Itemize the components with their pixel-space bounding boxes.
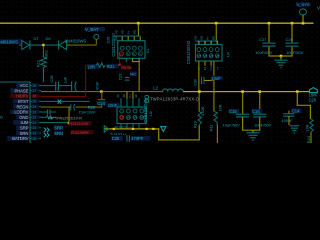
svg-text:C14: C14	[292, 109, 300, 114]
wire V_BAT stub	[96, 39, 97, 44]
svg-text:CS8123SN0: CS8123SN0	[186, 40, 191, 64]
wire PHASE row to U2	[41, 91, 140, 92]
svg-text:R19: R19	[194, 121, 198, 128]
net label red R13210O	[69, 121, 92, 125]
svg-text:ILIM: ILIM	[21, 120, 29, 125]
wire PHASE to U2 pin3	[132, 92, 133, 99]
pin BTST	[13, 99, 28, 104]
svg-text:F+: F+	[128, 94, 132, 98]
svg-text:R24: R24	[307, 136, 311, 143]
svg-text:10R: 10R	[305, 124, 309, 131]
svg-text:U4: U4	[226, 52, 230, 57]
svg-text:VCC: VCC	[20, 83, 29, 88]
resistor R24	[310, 119, 313, 132]
svg-text:NC: NC	[130, 71, 136, 76]
svg-text:PHASE: PHASE	[14, 88, 28, 93]
svg-text:R13210OK: R13210OK	[69, 121, 89, 126]
net arrows SRP	[44, 128, 49, 132]
wire bus to C29	[291, 24, 292, 42]
svg-text:GND: GND	[19, 115, 28, 120]
junction bus to U1	[137, 22, 140, 25]
wire C24 bottom	[101, 102, 102, 108]
svg-text:10nF: 10nF	[211, 76, 221, 81]
svg-text:26: 26	[32, 94, 36, 98]
label C16	[252, 109, 263, 114]
svg-text:C23: C23	[118, 74, 122, 81]
junction bus to V_SYS port	[302, 22, 305, 25]
junction diodes to R12	[42, 44, 44, 46]
wire	[41, 116, 46, 118]
resistor on GND row	[46, 116, 53, 119]
junction bus to U4	[215, 22, 218, 25]
label C25	[111, 136, 123, 141]
svg-text:C27: C27	[259, 37, 267, 42]
junction red net	[118, 63, 120, 65]
port V_BAT	[85, 27, 106, 31]
svg-text:R11: R11	[210, 125, 214, 132]
IC U4 body	[196, 44, 223, 61]
net label red R111362	[71, 130, 94, 134]
svg-text:47nF: 47nF	[95, 81, 99, 90]
pin ILIM	[13, 120, 28, 125]
pin LODRV	[10, 110, 28, 115]
junction yellow ILIM	[68, 122, 71, 125]
wire gnd stub	[280, 56, 281, 60]
label R21	[106, 64, 118, 69]
svg-text:C: C	[120, 52, 122, 56]
U4 pads row1	[197, 48, 201, 52]
port arrow down	[161, 127, 166, 132]
svg-text:L2: L2	[153, 85, 158, 90]
capacitor on LODRV row	[47, 109, 49, 114]
svg-text:20: 20	[32, 126, 36, 130]
inductor L2	[163, 89, 183, 92]
U1 pads row1	[120, 46, 124, 50]
wire bus to C16	[259, 92, 260, 114]
wire HIDRV row (red)	[41, 96, 86, 97]
pin GND	[16, 115, 28, 120]
svg-text:V_SYS: V_SYS	[297, 2, 310, 7]
capacitor C25	[126, 135, 128, 141]
svg-text:C5: C5	[120, 116, 124, 120]
svg-text:R21: R21	[107, 64, 115, 69]
svg-text:18: 18	[32, 137, 36, 141]
wire bus to C27	[268, 24, 269, 42]
pin HIDRV	[10, 94, 28, 99]
port arrow (right end of bus)	[310, 88, 318, 93]
wire REGN row	[41, 107, 71, 108]
net arrow left	[104, 126, 108, 133]
wire U1 down to PHASE row	[139, 61, 140, 92]
svg-text:19: 19	[32, 132, 36, 136]
junction gnd tie	[280, 55, 283, 58]
wire red to U1 pad	[119, 56, 120, 64]
ground symbol (top right)	[275, 60, 288, 67]
capacitor C15	[236, 113, 249, 115]
svg-text:P5 0s: P5 0s	[121, 65, 131, 70]
resistor R11	[214, 111, 217, 124]
svg-text:10uF/50V: 10uF/50V	[254, 122, 272, 127]
svg-text:C16: C16	[252, 109, 260, 114]
wire bus A down	[158, 128, 159, 140]
svg-text:C24: C24	[97, 101, 105, 106]
net label red	[121, 65, 131, 69]
pin REGN	[13, 104, 28, 109]
label C24	[97, 101, 107, 106]
svg-text:10R: 10R	[88, 64, 96, 69]
wire V_SYS/V_BAT top bus	[0, 23, 314, 24]
svg-text:BTST: BTST	[18, 99, 29, 104]
svg-text:U2: U2	[149, 111, 153, 116]
wire HIDRV vertical (red)	[85, 65, 86, 97]
wire gnd tie	[268, 55, 292, 56]
svg-text:10R: 10R	[219, 104, 223, 111]
svg-text:23: 23	[32, 110, 36, 114]
svg-text:C15: C15	[229, 109, 237, 114]
junction U4 to bus	[198, 90, 201, 93]
wire C20 branch	[297, 92, 310, 119]
svg-text:25: 25	[32, 100, 36, 104]
wires below U4	[199, 61, 214, 111]
wire between diodes	[30, 45, 58, 46]
svg-text:CS8123SN0: CS8123SN0	[111, 33, 116, 57]
wire C24 top	[101, 92, 102, 100]
svg-text:V5: V5	[210, 54, 214, 58]
wire bus B up to R19	[199, 125, 200, 140]
wire bus drop to U1	[138, 24, 139, 36]
wire PHASE to U2 pin2	[126, 92, 127, 99]
wires C15/C16 to gnd	[243, 117, 260, 130]
svg-text:BATDRV: BATDRV	[12, 136, 28, 141]
wire L2 to right bus	[183, 91, 309, 92]
label C15	[229, 109, 240, 114]
wire U1 bottom jog	[132, 61, 140, 62]
net arrows SRN	[44, 133, 49, 137]
junction bus A 4	[152, 128, 154, 130]
svg-text:C26: C26	[106, 37, 110, 44]
svg-text:D7: D7	[34, 36, 40, 41]
diode D7 value 1N4819WS	[0, 39, 22, 44]
wire C14 to gnd	[288, 116, 289, 125]
pin PHASE	[10, 88, 28, 93]
svg-text:D: D	[0, 115, 3, 120]
wire R12 to U3 top	[43, 67, 44, 82]
svg-text:100nF: 100nF	[281, 118, 293, 123]
svg-text:1N4819WS: 1N4819WS	[65, 38, 87, 43]
wire R19 top	[199, 93, 200, 111]
svg-text:D6: D6	[46, 36, 52, 41]
wire into L2	[140, 91, 163, 92]
wire yellow vertical x69	[69, 107, 70, 124]
capacitor C22 (polarized)	[71, 82, 73, 91]
wire R24 bottom	[310, 132, 311, 143]
junction bus to C27	[268, 22, 271, 25]
IC U2 body	[117, 107, 146, 124]
svg-text:F3: F3	[203, 66, 207, 70]
capacitor C28	[55, 82, 57, 91]
capacitor C24	[98, 99, 105, 101]
resistor R12	[41, 57, 47, 67]
svg-text:10uF/50V: 10uF/50V	[286, 50, 304, 55]
svg-text:4.02K: 4.02K	[201, 106, 205, 116]
svg-text:10nF: 10nF	[108, 103, 118, 108]
ground symbol (bottom mid)	[247, 133, 260, 141]
svg-text:V5: V5	[127, 116, 131, 120]
svg-text:SRP: SRP	[54, 125, 63, 130]
junction bus A 2	[132, 128, 134, 130]
wire C27 to gnd rail	[268, 47, 269, 57]
pin SRP	[16, 125, 28, 130]
capacitor C33 (polarized)	[70, 104, 72, 110]
svg-text:R12: R12	[37, 60, 41, 67]
port V_SYS	[296, 2, 311, 6]
net label NC	[130, 71, 137, 76]
wire V_SYS port stub	[302, 15, 303, 23]
pin VCC	[16, 83, 28, 88]
wire U1 pin3 down	[132, 58, 133, 61]
svg-text:24: 24	[32, 105, 36, 109]
svg-text:27: 27	[32, 89, 36, 93]
wire REGN row to C24	[75, 107, 101, 108]
no-connect cross	[58, 100, 62, 104]
junction C16	[258, 90, 261, 93]
wire C14 top stub	[288, 111, 289, 114]
wire HIDRV to R21	[85, 65, 91, 66]
junction PHASE to C24	[100, 90, 103, 93]
wire bus drop to U4	[216, 24, 217, 41]
svg-text:C28: C28	[50, 76, 54, 83]
svg-text:V5: V5	[134, 116, 138, 120]
svg-text:28: 28	[32, 84, 36, 88]
svg-text:470PF: 470PF	[131, 136, 144, 141]
net label SRP	[54, 125, 63, 129]
wire gnd stub mid	[252, 130, 253, 132]
wire D6 to V_BAT port	[67, 45, 97, 46]
svg-text:N4819WS: N4819WS	[0, 39, 18, 44]
label 10n	[107, 103, 119, 108]
resistor R21 value 10R	[87, 64, 99, 69]
svg-text:U1: U1	[146, 49, 150, 54]
U4 pads row2	[197, 54, 201, 58]
svg-text:V5: V5	[197, 54, 201, 58]
svg-text:R111360K: R111360K	[71, 130, 89, 135]
svg-text:TWPA12633P-4R7XX-D: TWPA12633P-4R7XX-D	[150, 97, 199, 102]
junction C20 branch	[296, 90, 299, 93]
U2 pads row2, pad1 red	[120, 115, 124, 119]
wire bus B bottom	[158, 139, 200, 140]
label 10nF	[211, 76, 223, 81]
junction bus to C29	[291, 22, 294, 25]
svg-text:C4: C4	[209, 66, 213, 70]
svg-text:6+: 6+	[205, 36, 209, 40]
wire junction to R12	[43, 46, 44, 57]
svg-text:V_BAT: V_BAT	[85, 27, 99, 32]
resistor R19	[198, 111, 201, 124]
wire U4 top comb	[195, 40, 218, 42]
label 470PF	[131, 136, 151, 141]
svg-text:V5: V5	[203, 54, 207, 58]
wire bus to C15	[242, 92, 243, 114]
IC U3 charger body (cut off at left edge)	[0, 82, 30, 143]
wires U2 top pins	[121, 98, 139, 107]
junction bus A 1	[113, 128, 115, 130]
diode D7	[19, 40, 30, 49]
svg-text:SRN: SRN	[54, 131, 63, 136]
mark S8	[145, 96, 148, 99]
wire bus A under U2	[104, 128, 159, 129]
svg-text:REGN: REGN	[16, 104, 28, 109]
pin BATDRV	[7, 136, 28, 141]
wire C30 to x214	[204, 80, 214, 81]
wire U1 top comb	[115, 35, 141, 37]
svg-text:HIDRV: HIDRV	[16, 94, 29, 99]
svg-text:C34 10nF: C34 10nF	[79, 109, 97, 114]
svg-text:V5: V5	[216, 54, 220, 58]
svg-text:LODRV: LODRV	[14, 110, 28, 115]
wire R11 to bottom edge	[217, 125, 218, 143]
pin SRN	[16, 131, 28, 136]
svg-text:21: 21	[32, 121, 36, 125]
svg-text:6+: 6+	[126, 31, 130, 35]
IC U1 body	[118, 41, 145, 59]
ground symbol (C14)	[289, 126, 299, 133]
svg-text:SRN: SRN	[20, 131, 29, 136]
junction C15	[241, 90, 244, 93]
svg-text:C20: C20	[309, 97, 317, 102]
wires below U2	[121, 124, 139, 129]
resistor R21	[96, 63, 106, 67]
wire C29 to gnd rail	[291, 47, 292, 57]
U2 pads row1	[120, 109, 124, 113]
diode D6	[59, 40, 67, 49]
svg-text:C25: C25	[112, 136, 120, 141]
svg-text:10uF/50V: 10uF/50V	[223, 122, 241, 127]
net label SRN	[54, 131, 63, 136]
wire U1 pin4 down	[139, 58, 140, 61]
svg-text:10uF/50V: 10uF/50V	[255, 50, 273, 55]
svg-text:++: ++	[215, 67, 219, 71]
svg-text:45: 45	[116, 94, 120, 98]
svg-text:C29: C29	[286, 37, 294, 42]
svg-text:SRP: SRP	[20, 126, 29, 131]
svg-text:1uF: 1uF	[63, 76, 67, 83]
capacitor C16	[253, 113, 266, 115]
svg-text:C30: C30	[194, 79, 198, 86]
junction bus A 3	[146, 128, 148, 130]
U1 pads row2, pad1 red	[119, 52, 123, 56]
svg-text:+R* TPA125CE10-R: +R* TPA125CE10-R	[48, 116, 83, 120]
svg-text:22: 22	[32, 116, 36, 120]
